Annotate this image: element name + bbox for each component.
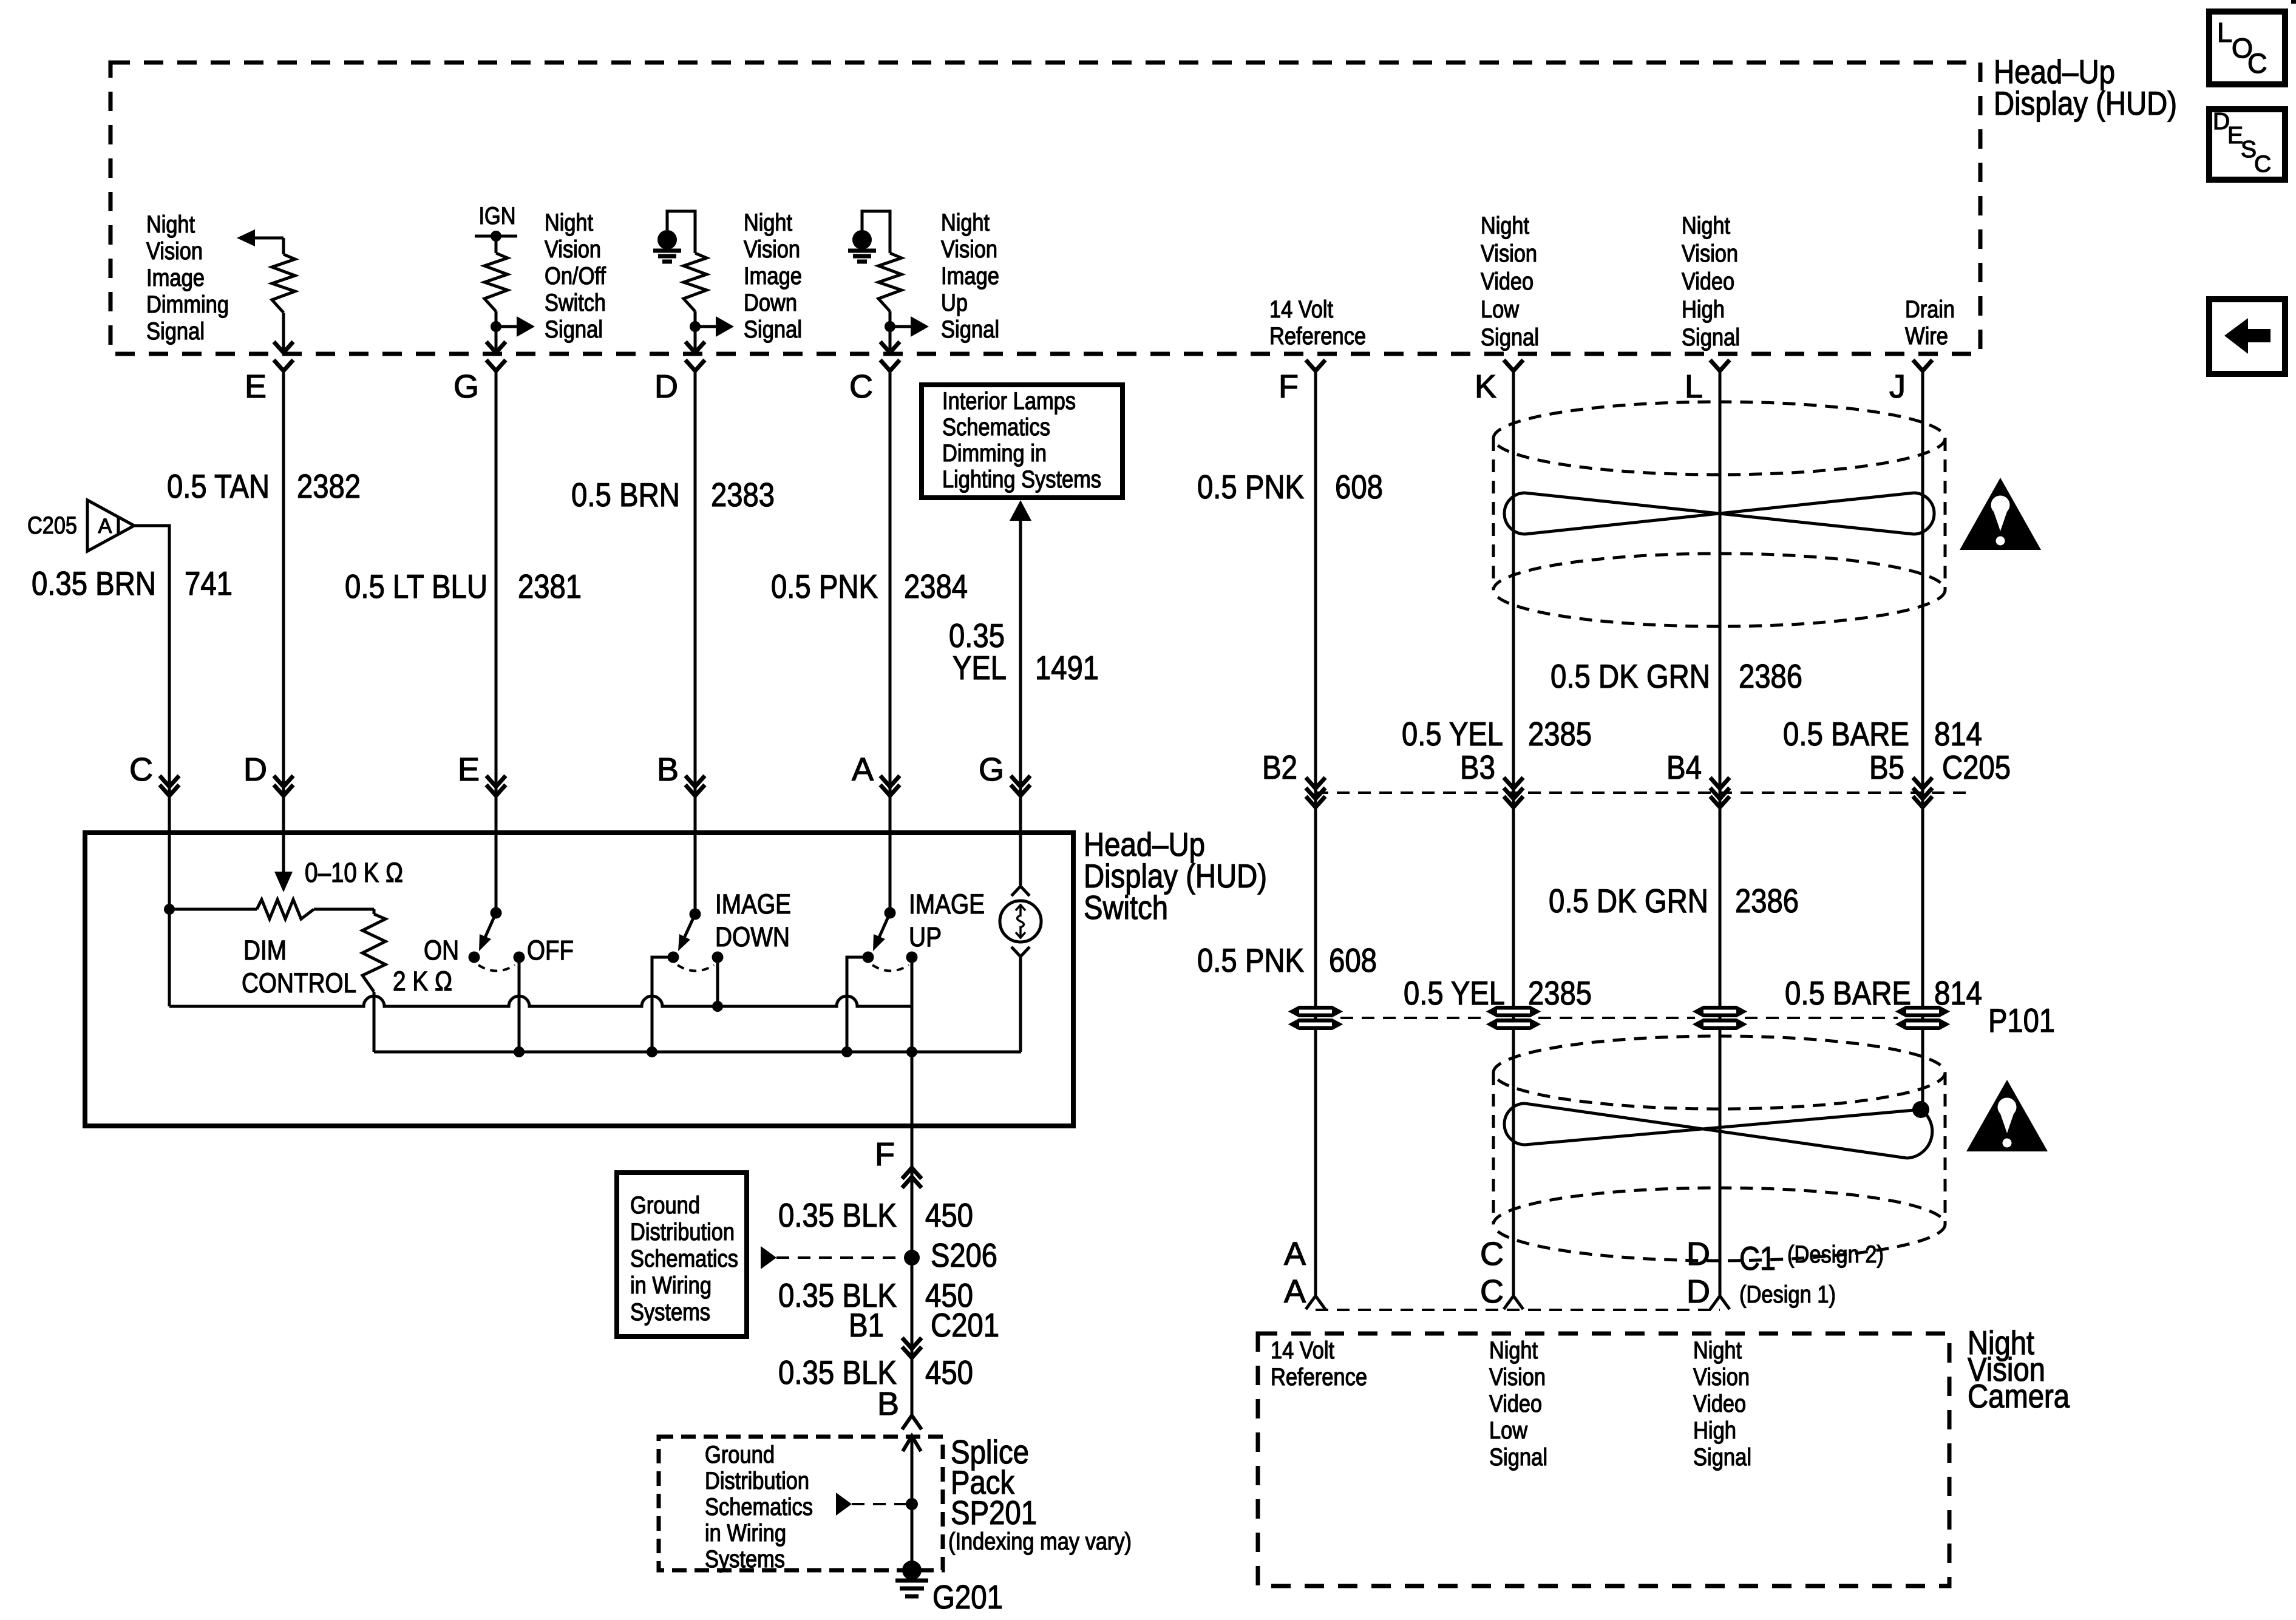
- svg-text:0.5 BARE: 0.5 BARE: [1783, 715, 1909, 753]
- svg-text:B: B: [657, 751, 679, 788]
- svg-text:Wire: Wire: [1905, 323, 1948, 350]
- svg-text:Night: Night: [941, 209, 990, 236]
- svg-text:Signal: Signal: [941, 316, 999, 343]
- svg-text:J: J: [1889, 368, 1906, 405]
- svg-text:in Wiring: in Wiring: [630, 1272, 712, 1299]
- svg-text:741: 741: [185, 564, 233, 602]
- svg-text:SP201: SP201: [951, 1494, 1037, 1531]
- svg-text:C201: C201: [931, 1306, 999, 1344]
- svg-text:Distribution: Distribution: [630, 1219, 735, 1246]
- svg-text:Night: Night: [744, 209, 792, 236]
- svg-text:Vision: Vision: [1682, 240, 1738, 267]
- svg-text:Video: Video: [1682, 268, 1734, 295]
- svg-text:A: A: [1284, 1236, 1306, 1272]
- svg-text:C205: C205: [1942, 748, 2011, 786]
- svg-text:Switch: Switch: [545, 290, 606, 316]
- svg-text:B3: B3: [1460, 748, 1495, 786]
- svg-text:(Indexing may vary): (Indexing may vary): [948, 1528, 1132, 1555]
- svg-text:2381: 2381: [518, 568, 582, 605]
- svg-text:A: A: [98, 515, 112, 538]
- svg-text:Vision: Vision: [1481, 240, 1537, 267]
- svg-text:Low: Low: [1481, 296, 1519, 323]
- svg-text:2383: 2383: [711, 476, 775, 513]
- svg-text:Down: Down: [744, 290, 797, 316]
- svg-text:C1: C1: [1739, 1239, 1776, 1277]
- svg-text:0.35 BLK: 0.35 BLK: [778, 1196, 897, 1234]
- svg-text:Low: Low: [1489, 1417, 1527, 1444]
- svg-text:G: G: [979, 751, 1004, 788]
- svg-text:Dimming in: Dimming in: [942, 440, 1047, 467]
- svg-text:C: C: [1480, 1236, 1504, 1272]
- svg-text:Vision: Vision: [1693, 1364, 1750, 1391]
- svg-text:Vision: Vision: [545, 236, 601, 263]
- svg-text:B5: B5: [1869, 748, 1904, 786]
- svg-text:0.5 DK GRN: 0.5 DK GRN: [1549, 882, 1708, 920]
- svg-text:A: A: [1284, 1273, 1306, 1310]
- svg-text:0.5 BARE: 0.5 BARE: [1785, 974, 1911, 1012]
- svg-text:608: 608: [1329, 941, 1377, 979]
- svg-text:ON: ON: [424, 935, 459, 966]
- svg-text:Camera: Camera: [1968, 1377, 2070, 1415]
- svg-text:F: F: [1279, 368, 1299, 405]
- svg-text:IMAGE: IMAGE: [909, 889, 985, 920]
- svg-text:450: 450: [925, 1196, 973, 1234]
- svg-text:Image: Image: [744, 263, 802, 290]
- svg-text:UP: UP: [909, 921, 942, 952]
- svg-text:0.35 BRN: 0.35 BRN: [32, 564, 156, 602]
- svg-text:Ground: Ground: [630, 1192, 700, 1219]
- svg-text:Drain: Drain: [1905, 296, 1955, 323]
- svg-text:Display (HUD): Display (HUD): [1994, 84, 2177, 122]
- svg-text:DOWN: DOWN: [715, 921, 790, 952]
- svg-text:Ground: Ground: [705, 1442, 775, 1468]
- svg-text:(Design 2): (Design 2): [1787, 1241, 1884, 1268]
- svg-text:0.5 DK GRN: 0.5 DK GRN: [1550, 657, 1710, 695]
- svg-text:G201: G201: [932, 1578, 1003, 1616]
- svg-text:0.5 LT BLU: 0.5 LT BLU: [345, 568, 487, 605]
- svg-text:Schematics: Schematics: [630, 1246, 738, 1272]
- svg-text:Up: Up: [941, 290, 968, 316]
- svg-text:G: G: [453, 368, 479, 405]
- svg-text:14 Volt: 14 Volt: [1271, 1337, 1334, 1364]
- svg-text:(Design 1): (Design 1): [1739, 1281, 1836, 1308]
- svg-text:Reference: Reference: [1269, 323, 1366, 350]
- svg-text:0.5 BRN: 0.5 BRN: [571, 476, 680, 513]
- svg-text:Vision: Vision: [146, 238, 203, 265]
- svg-text:Image: Image: [146, 265, 205, 291]
- svg-text:IMAGE: IMAGE: [715, 889, 791, 920]
- svg-text:F: F: [875, 1136, 895, 1173]
- svg-text:14 Volt: 14 Volt: [1269, 296, 1333, 323]
- svg-text:High: High: [1693, 1417, 1736, 1444]
- svg-text:L: L: [2217, 17, 2232, 48]
- svg-text:On/Off: On/Off: [545, 263, 606, 290]
- svg-text:2384: 2384: [904, 568, 968, 605]
- svg-text:K: K: [1475, 368, 1496, 405]
- svg-text:P101: P101: [1988, 1001, 2055, 1039]
- svg-text:Signal: Signal: [1489, 1444, 1547, 1471]
- svg-text:B4: B4: [1666, 748, 1702, 786]
- svg-text:Interior Lamps: Interior Lamps: [942, 388, 1076, 415]
- svg-text:C: C: [849, 368, 873, 405]
- svg-text:Systems: Systems: [630, 1299, 710, 1326]
- svg-text:0.5 TAN: 0.5 TAN: [167, 467, 270, 505]
- svg-text:Video: Video: [1693, 1391, 1746, 1417]
- svg-text:E: E: [458, 751, 480, 788]
- svg-text:1491: 1491: [1035, 649, 1099, 686]
- svg-text:Dimming: Dimming: [146, 291, 229, 318]
- svg-text:CONTROL: CONTROL: [242, 968, 356, 998]
- svg-text:D: D: [1686, 1273, 1710, 1310]
- svg-text:DIM: DIM: [243, 935, 287, 966]
- svg-text:OFF: OFF: [527, 935, 574, 966]
- svg-text:814: 814: [1934, 974, 1982, 1012]
- svg-text:B2: B2: [1262, 748, 1297, 786]
- svg-text:Signal: Signal: [146, 318, 205, 345]
- svg-text:IGN: IGN: [479, 203, 516, 229]
- svg-text:Video: Video: [1489, 1391, 1542, 1417]
- svg-text:Video: Video: [1481, 268, 1533, 295]
- svg-text:Switch: Switch: [1084, 889, 1168, 926]
- svg-text:Night: Night: [146, 211, 195, 238]
- svg-text:0.5 YEL: 0.5 YEL: [1404, 974, 1505, 1012]
- svg-text:0.5 YEL: 0.5 YEL: [1402, 715, 1503, 753]
- svg-text:Night: Night: [1682, 212, 1730, 239]
- svg-text:Night: Night: [1481, 212, 1529, 239]
- svg-text:Vision: Vision: [941, 236, 997, 263]
- svg-text:0.5 PNK: 0.5 PNK: [1197, 941, 1304, 979]
- svg-text:Distribution: Distribution: [705, 1468, 809, 1494]
- svg-text:Night: Night: [545, 209, 593, 236]
- svg-text:814: 814: [1934, 715, 1982, 753]
- svg-text:S206: S206: [931, 1236, 997, 1274]
- svg-text:Systems: Systems: [705, 1546, 785, 1573]
- svg-text:E: E: [245, 368, 267, 405]
- svg-text:Reference: Reference: [1271, 1364, 1367, 1391]
- svg-text:2382: 2382: [297, 467, 361, 505]
- svg-text:608: 608: [1335, 468, 1383, 506]
- svg-text:High: High: [1682, 296, 1725, 323]
- svg-text:0.5 PNK: 0.5 PNK: [771, 568, 878, 605]
- svg-text:Vision: Vision: [1489, 1364, 1546, 1391]
- svg-text:D: D: [1686, 1236, 1710, 1272]
- svg-text:C: C: [129, 751, 153, 788]
- svg-text:Signal: Signal: [1682, 324, 1740, 351]
- svg-text:D: D: [243, 751, 267, 788]
- svg-text:Night: Night: [1693, 1337, 1742, 1364]
- svg-text:B: B: [877, 1386, 899, 1422]
- svg-text:YEL: YEL: [953, 649, 1007, 686]
- svg-text:L: L: [1685, 368, 1703, 405]
- svg-text:Night: Night: [1489, 1337, 1538, 1364]
- svg-text:2386: 2386: [1735, 882, 1799, 920]
- svg-text:0.5 PNK: 0.5 PNK: [1197, 468, 1304, 506]
- svg-text:Image: Image: [941, 263, 999, 290]
- svg-text:Signal: Signal: [1693, 1444, 1751, 1471]
- svg-text:C205: C205: [27, 512, 77, 539]
- svg-text:in Wiring: in Wiring: [705, 1520, 786, 1547]
- svg-text:B1: B1: [849, 1306, 884, 1344]
- svg-text:450: 450: [925, 1354, 973, 1391]
- svg-text:Schematics: Schematics: [942, 414, 1050, 441]
- svg-text:Signal: Signal: [1481, 324, 1539, 351]
- svg-text:2385: 2385: [1528, 974, 1592, 1012]
- svg-text:2 K Ω: 2 K Ω: [393, 966, 452, 997]
- svg-text:C: C: [1480, 1273, 1504, 1310]
- svg-text:2386: 2386: [1739, 657, 1802, 695]
- svg-text:C: C: [2247, 48, 2267, 79]
- svg-text:C: C: [2254, 151, 2271, 177]
- svg-text:Schematics: Schematics: [705, 1494, 813, 1520]
- svg-text:Lighting Systems: Lighting Systems: [942, 466, 1101, 493]
- svg-text:Signal: Signal: [744, 316, 802, 343]
- svg-text:Signal: Signal: [545, 316, 603, 343]
- svg-text:2385: 2385: [1528, 715, 1592, 753]
- svg-text:A: A: [852, 751, 874, 788]
- svg-text:D: D: [654, 368, 678, 405]
- svg-text:0–10 K Ω: 0–10 K Ω: [305, 857, 403, 888]
- svg-text:Vision: Vision: [744, 236, 800, 263]
